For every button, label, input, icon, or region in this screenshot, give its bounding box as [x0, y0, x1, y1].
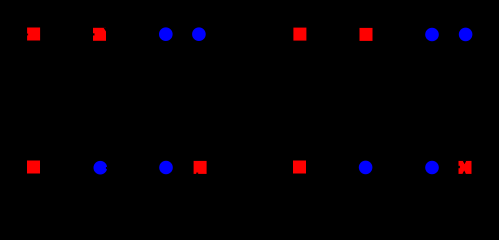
wire: left graph edge A2-A3 — [100, 33, 166, 35]
node B4: red square, left graph bottom row col 4 — [194, 161, 207, 174]
node C2: red square, right graph top row col 2 — [360, 28, 373, 41]
wire: right graph edge C3-C4 — [432, 33, 465, 35]
node A1: red square, left graph top row col 1 — [27, 28, 40, 41]
wire notch: edge overlap on node D4 left side — [459, 166, 460, 168]
wire: left graph edge A3-A4 — [166, 33, 199, 35]
wire: left graph edge A4-B4 — [199, 34, 200, 167]
wire notch: edge overlap on node B4 bottom-left — [196, 173, 198, 174]
wire: left graph edge B1-B2 — [34, 166, 101, 169]
node C1: red square, right graph top row col 1 — [293, 28, 306, 41]
wire: right graph edge C3-D3 — [431, 35, 433, 168]
wire: left graph edge A1-B1 — [33, 34, 35, 167]
node A3: blue circle, left graph top row col 3 — [159, 27, 173, 41]
wire: right graph edge D3-D4 — [432, 166, 465, 168]
node B2: blue circle, left graph bottom row col 2 — [94, 161, 108, 175]
node A4: blue circle, left graph top row col 4 — [192, 27, 206, 41]
wire notch: edge overlap on node A2 top-right corner — [104, 28, 107, 32]
wire: left graph edge B2-B3 — [100, 167, 166, 169]
node D4: red square, right graph bottom row col 4 — [459, 161, 472, 174]
wire: right graph edge C1-C2 — [300, 33, 366, 35]
node B1: red square, left graph bottom row col 1 — [27, 161, 40, 174]
wire: left graph edge B3-B4 — [166, 166, 200, 168]
wire: left graph edge A3-B3 — [165, 34, 167, 167]
node D3: blue circle, right graph bottom row col 3 — [425, 161, 439, 175]
node C3: blue circle, right graph top row col 3 — [425, 28, 439, 42]
wire: right graph edge D1-D2 — [300, 166, 366, 168]
wire notch: vertical edge overlap on node D4 top — [463, 161, 466, 164]
node B3: blue circle, left graph bottom row col 3 — [159, 161, 173, 175]
wire: left graph edge A2-B2 — [99, 34, 102, 167]
node D2: blue circle, right graph bottom row col 2 — [359, 161, 373, 175]
node C4: blue circle, right graph top row col 4 — [459, 28, 473, 42]
node A2: red square, left graph top row col 2 — [93, 28, 106, 41]
wire notch: edge overlap on node A1 left side — [27, 34, 28, 36]
node D1: red square, right graph bottom row col 1 — [293, 161, 306, 174]
wire: left graph edge A1-A2 — [34, 33, 100, 35]
wire notch: edge overlap on node B2 right side — [106, 167, 107, 169]
wire: right graph edge D2-D3 — [366, 166, 432, 168]
wire: right graph edge C4-D4 — [464, 34, 466, 167]
wire: right graph edge C2-C3 — [366, 33, 432, 35]
wire notch: vertical edge overlap on node D4 bottom — [462, 171, 466, 174]
wire notch: edge overlap on node A2 left side — [93, 33, 95, 35]
wire: right graph edge C2-D2 — [365, 34, 367, 167]
wire: right graph edge C1-D1 — [299, 34, 301, 167]
